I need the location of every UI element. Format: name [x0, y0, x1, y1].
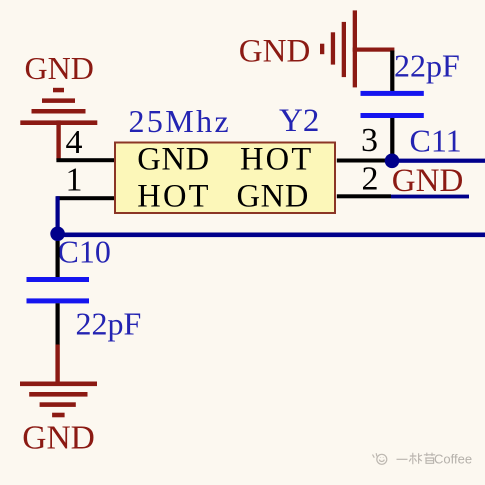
pin 1 wire [56, 196, 115, 200]
svg-text:GND: GND [239, 34, 310, 70]
svg-text:Coffee: Coffee [434, 452, 472, 467]
svg-text:GND: GND [137, 142, 210, 178]
wire navy horizontal long [58, 233, 485, 238]
svg-text:22pF: 22pF [76, 306, 142, 342]
capacitor C11 top pin [390, 51, 394, 92]
junction node left [50, 227, 65, 242]
svg-text:1: 1 [66, 162, 83, 199]
svg-text:HOT: HOT [240, 142, 313, 178]
svg-text:2: 2 [362, 161, 379, 198]
power port GND top-left symbol [20, 88, 97, 160]
capacitor C10 bottom pin [56, 303, 60, 345]
watermark text 一杯苦Coffee [397, 453, 436, 465]
crystal Y2 body [115, 143, 335, 214]
pin 2 wire [337, 194, 391, 198]
pin 3 wire [337, 159, 392, 163]
capacitor C10 plates [27, 277, 90, 303]
svg-text:22pF: 22pF [394, 48, 460, 84]
svg-text:C11: C11 [410, 122, 462, 158]
wire navy to right edge [392, 159, 485, 163]
net label wire GND right [391, 195, 469, 199]
svg-text:Y2: Y2 [279, 103, 319, 139]
svg-text:C10: C10 [58, 234, 111, 270]
svg-text:GND: GND [22, 420, 95, 457]
svg-text:GND: GND [392, 163, 464, 199]
power port GND bottom symbol [20, 345, 97, 418]
svg-text:GND: GND [237, 179, 310, 215]
junction node right [385, 154, 400, 169]
capacitor C11 bottom pin [390, 118, 394, 157]
svg-text:3: 3 [361, 122, 378, 159]
wire navy vertical from pin1 to junction [56, 196, 60, 234]
svg-text:HOT: HOT [137, 179, 210, 215]
capacitor C10 top pin [56, 241, 60, 277]
svg-text:GND: GND [25, 50, 94, 86]
pin 4 wire [56, 158, 115, 162]
watermark icon [373, 453, 387, 464]
svg-text:4: 4 [66, 124, 83, 161]
power port GND top-right symbol (rotated) [320, 10, 394, 87]
capacitor C11 plates [361, 91, 424, 118]
svg-text:25Mhz: 25Mhz [129, 103, 232, 139]
